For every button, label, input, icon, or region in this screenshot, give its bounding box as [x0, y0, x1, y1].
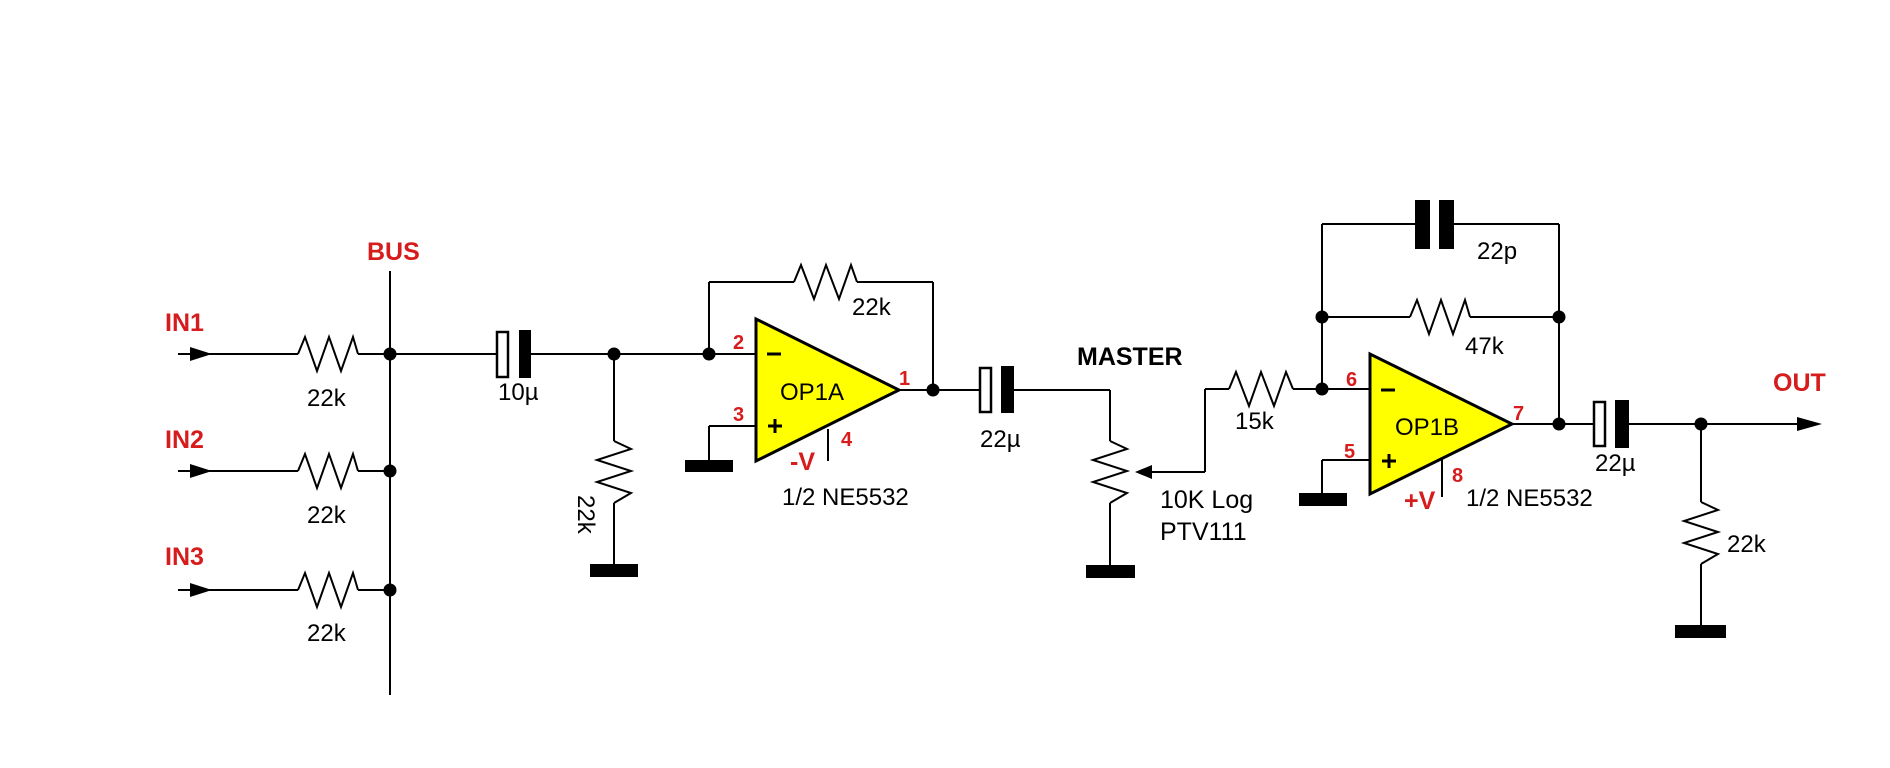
wire node down to R4	[613, 354, 615, 441]
wire 22p top right	[1454, 223, 1559, 225]
wire wiper to R6	[1205, 388, 1229, 390]
input arrow IN3	[190, 583, 212, 597]
wire OP1A output	[899, 389, 979, 391]
junction bus IN2	[384, 465, 397, 478]
wire feedback B right vertical	[1558, 224, 1560, 424]
svg-text:6: 6	[1346, 369, 1357, 391]
junction output feedback	[927, 384, 940, 397]
wire OP1B output	[1512, 423, 1593, 425]
svg-text:22k: 22k	[307, 502, 347, 529]
wire R2 to bus	[358, 470, 390, 472]
wire R1 to bus	[358, 353, 390, 355]
wire IN1 input	[178, 353, 298, 355]
input arrow IN1	[190, 347, 212, 361]
svg-text:+V: +V	[1404, 487, 1436, 515]
wire bus vertical	[389, 271, 391, 695]
wire C4 to output	[1629, 423, 1798, 425]
wire feedback top left	[709, 281, 794, 283]
wire R4 to ground	[613, 503, 615, 564]
OP1B minus input marker	[1381, 389, 1395, 392]
svg-text:7: 7	[1513, 403, 1524, 425]
svg-text:OUT: OUT	[1773, 369, 1826, 397]
capacitor C3 22p	[1415, 200, 1454, 249]
wire node to pin2 junction	[614, 353, 709, 355]
resistor R5 22k feedback	[794, 265, 857, 299]
wire 47k left	[1322, 316, 1410, 318]
wire to OP1A pin 2	[709, 353, 756, 355]
svg-text:IN2: IN2	[165, 426, 204, 454]
svg-text:10µ: 10µ	[498, 379, 539, 406]
op-amp U1B triangle	[1370, 354, 1512, 494]
svg-text:BUS: BUS	[367, 238, 420, 266]
wire R6 to pin6	[1293, 388, 1322, 390]
svg-text:1/2 NE5532: 1/2 NE5532	[1466, 485, 1593, 512]
wire IN3 input	[178, 589, 298, 591]
wire to OP1B pin 6	[1322, 388, 1370, 390]
OP1B plus input marker	[1382, 454, 1396, 468]
OP1A plus input marker	[768, 419, 782, 433]
node R4 top	[608, 348, 621, 361]
svg-text:MASTER: MASTER	[1077, 343, 1183, 371]
input arrow IN2	[190, 464, 212, 478]
resistor R6 15k	[1229, 372, 1293, 406]
resistor R7 22k load	[1684, 502, 1718, 564]
wire pot to ground	[1109, 503, 1111, 565]
svg-text:2: 2	[733, 332, 744, 354]
svg-text:22µ: 22µ	[980, 426, 1021, 453]
ground under R7	[1675, 625, 1726, 638]
wire R3 to bus	[358, 589, 390, 591]
svg-text:22k: 22k	[572, 495, 599, 535]
capacitor C2 22u polarized	[980, 366, 1014, 413]
wire pin3	[709, 425, 756, 427]
junction 47k left	[1316, 311, 1329, 324]
junction pin2 feedback	[703, 348, 716, 361]
svg-text:4: 4	[841, 429, 853, 451]
svg-text:3: 3	[733, 404, 744, 426]
wire feedback B left vertical	[1321, 224, 1323, 389]
svg-text:1/2 NE5532: 1/2 NE5532	[782, 484, 909, 511]
wire C2 to pot	[1014, 389, 1110, 391]
wire feedback down to output	[932, 282, 934, 390]
resistor R2 22k	[298, 454, 358, 488]
resistor R1 22k	[298, 337, 358, 371]
svg-text:1: 1	[899, 368, 910, 390]
svg-text:-V: -V	[790, 448, 815, 476]
wire down to pot	[1109, 390, 1111, 441]
wire pin2 feedback up	[708, 282, 710, 354]
potentiometer VR1 track	[1093, 441, 1127, 503]
junction pin6 feedback	[1316, 383, 1329, 396]
svg-text:IN3: IN3	[165, 543, 204, 571]
resistor R3 22k	[298, 573, 358, 607]
svg-text:OP1B: OP1B	[1395, 414, 1459, 441]
ground pot	[1086, 565, 1135, 578]
wire C1 to node	[531, 353, 614, 355]
resistor R8 47k feedback	[1410, 300, 1470, 334]
wire feedback top right	[857, 281, 933, 283]
output arrow	[1797, 417, 1822, 431]
op-amp U1A triangle	[756, 319, 899, 461]
svg-text:22k: 22k	[852, 294, 892, 321]
wire pin3 down	[708, 426, 710, 460]
svg-text:PTV111: PTV111	[1160, 518, 1247, 546]
svg-text:22k: 22k	[307, 385, 347, 412]
junction 47k right	[1553, 311, 1566, 324]
svg-text:22p: 22p	[1477, 238, 1517, 265]
wire pin5 down	[1321, 460, 1323, 493]
pin 8 stub	[1441, 459, 1443, 497]
svg-text:22µ: 22µ	[1595, 450, 1636, 477]
svg-text:15k: 15k	[1235, 408, 1275, 435]
wire junction down to R7	[1700, 424, 1702, 502]
ground pin5	[1299, 493, 1347, 506]
wire 22p top left	[1322, 223, 1415, 225]
ground under R4	[590, 564, 638, 577]
junction bus IN1	[384, 348, 397, 361]
svg-text:IN1: IN1	[165, 309, 204, 337]
OP1A minus input marker	[767, 353, 781, 356]
junction bus IN3	[384, 584, 397, 597]
capacitor C4 22u polarized	[1594, 400, 1629, 448]
capacitor C1 10u polarized	[497, 330, 531, 378]
svg-text:OP1A: OP1A	[780, 379, 844, 406]
resistor R4 22k shunt	[597, 441, 631, 503]
wire 47k right	[1470, 316, 1559, 318]
wire bus to C1	[390, 353, 496, 355]
svg-text:10K Log: 10K Log	[1160, 486, 1253, 514]
wire IN2 input	[178, 470, 298, 472]
wire wiper up	[1204, 389, 1206, 472]
potentiometer wiper arrow	[1135, 465, 1205, 479]
wire pin5	[1322, 459, 1370, 461]
junction R7 top	[1695, 418, 1708, 431]
wire R7 to ground	[1700, 564, 1702, 625]
svg-text:22k: 22k	[307, 620, 347, 647]
junction output feedback B	[1553, 418, 1566, 431]
ground pin3	[685, 460, 733, 472]
svg-text:22k: 22k	[1727, 531, 1767, 558]
svg-text:47k: 47k	[1465, 333, 1505, 360]
pin 4 stub	[827, 429, 829, 461]
svg-text:8: 8	[1452, 465, 1463, 487]
